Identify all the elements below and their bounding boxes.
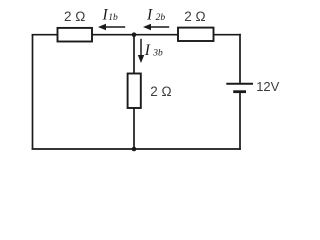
svg-text:2b: 2b [156,13,166,23]
svg-text:3b: 3b [152,49,163,59]
svg-text:2 Ω: 2 Ω [184,9,205,24]
svg-text:1b: 1b [108,13,118,23]
svg-text:2 Ω: 2 Ω [150,84,171,99]
svg-text:12V: 12V [256,79,279,94]
svg-text:2 Ω: 2 Ω [64,9,85,24]
svg-text:I: I [144,42,151,59]
svg-text:I: I [146,6,153,23]
